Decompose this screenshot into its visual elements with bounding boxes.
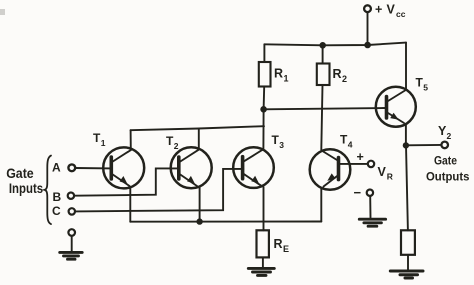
svg-text:T: T <box>416 76 424 90</box>
wire node to T5 base <box>264 108 387 109</box>
ground (RE) <box>248 268 274 275</box>
resistor R2 <box>317 64 330 86</box>
label plus sign <box>357 150 364 164</box>
svg-text:Gate: Gate <box>434 154 457 168</box>
svg-text:3: 3 <box>279 140 284 150</box>
collector bus wire T1,T2 to node <box>131 126 264 130</box>
svg-text:2: 2 <box>447 131 452 141</box>
brace gate inputs <box>45 156 51 225</box>
svg-text:V: V <box>378 165 387 179</box>
label C <box>52 204 61 218</box>
wire input ground terminal down <box>71 236 73 251</box>
label VR <box>378 165 393 182</box>
svg-text:cc: cc <box>396 9 406 19</box>
label +Vcc <box>375 3 406 20</box>
wire T5 emitter down to output node <box>405 124 407 145</box>
svg-text:−: − <box>354 185 362 200</box>
transistor T3 <box>233 147 274 188</box>
wire T3 collector up to node <box>262 109 264 148</box>
terminal +Vcc <box>364 5 371 12</box>
svg-text:4: 4 <box>348 140 353 150</box>
junction dot R2 top <box>320 43 326 49</box>
wire R2 bottom to T4 collector <box>321 85 322 150</box>
wire Vcc terminal down to rail <box>367 12 369 45</box>
svg-text:2: 2 <box>174 141 179 151</box>
svg-text:T: T <box>340 133 348 147</box>
svg-text:B: B <box>53 190 62 204</box>
transistor T2 <box>171 147 212 188</box>
transistor T4 (mirrored) <box>310 149 351 190</box>
junction dot T2 emitter <box>197 219 202 224</box>
svg-text:Outputs: Outputs <box>426 170 470 184</box>
svg-text:V: V <box>387 3 396 17</box>
svg-text:T: T <box>272 133 280 147</box>
scan smudge top-left <box>0 9 5 15</box>
wire VR minus to ground <box>369 196 371 218</box>
wire RE to ground <box>262 257 264 267</box>
transistor T1 <box>103 147 144 188</box>
svg-text:A: A <box>52 160 61 174</box>
label A <box>52 160 61 174</box>
ground (VR) <box>359 219 385 226</box>
label R2 <box>333 67 348 84</box>
wire rail down to R2 <box>322 45 324 63</box>
label T1 <box>93 131 106 148</box>
wire output node to Y2 terminal <box>406 144 442 146</box>
wire C to T3 base <box>75 169 243 212</box>
svg-text:R: R <box>274 237 283 251</box>
wire T1 emitter down <box>129 187 131 221</box>
label T4 <box>340 133 353 150</box>
ground (inputs) <box>60 252 82 259</box>
svg-text:C: C <box>52 204 61 218</box>
svg-text:T: T <box>166 134 174 148</box>
label Gate Inputs <box>6 166 43 196</box>
svg-text:E: E <box>283 244 289 254</box>
wire output node down to load resistor <box>406 145 408 230</box>
label Y2 <box>438 124 452 141</box>
junction dot Vcc <box>365 42 371 48</box>
wire T2 collector <box>198 129 200 150</box>
svg-text:R: R <box>274 67 283 81</box>
wire T3 emitter down through rail to RE <box>263 187 265 230</box>
svg-text:+: + <box>375 3 382 17</box>
resistor RE <box>257 230 269 257</box>
wire T2 emitter down <box>199 187 201 221</box>
label R1 <box>274 67 289 84</box>
label Gate Outputs <box>426 154 470 184</box>
svg-text:R: R <box>387 172 393 182</box>
wire T5 collector from rail <box>405 43 407 90</box>
svg-text:T: T <box>93 131 101 145</box>
terminal input C <box>69 208 75 214</box>
transistor T5 <box>376 87 416 127</box>
junction node A (R1/T3 collector/T5 base) <box>261 107 267 113</box>
label RE <box>274 237 290 254</box>
label minus sign <box>354 185 362 200</box>
wire rail down to R1 <box>263 44 265 62</box>
label T3 <box>272 133 285 150</box>
top supply rail <box>264 43 406 46</box>
label B <box>53 190 62 204</box>
junction dot output node <box>403 143 408 148</box>
wire T4 emitter down to rail end <box>320 189 322 222</box>
label T2 <box>166 134 179 151</box>
svg-text:Gate: Gate <box>6 166 34 181</box>
svg-text:2: 2 <box>342 74 347 84</box>
svg-text:R: R <box>333 67 342 81</box>
wire load resistor to ground <box>407 255 409 270</box>
terminal input A <box>68 164 75 171</box>
terminal Y2 <box>441 142 448 149</box>
svg-text:5: 5 <box>423 83 428 93</box>
svg-text:1: 1 <box>101 138 106 148</box>
resistor R1 <box>259 62 271 87</box>
resistor (output load) <box>401 230 415 255</box>
ground (output) <box>390 271 423 278</box>
wire T1 collector <box>130 130 132 150</box>
svg-text:Inputs: Inputs <box>9 181 43 196</box>
svg-text:+: + <box>357 150 364 164</box>
wire T4 base to VR plus terminal <box>339 163 368 165</box>
terminal VR minus <box>367 190 373 196</box>
terminal input ground <box>68 229 75 236</box>
terminal VR plus <box>368 161 374 167</box>
wire R1 bottom to node <box>263 87 266 110</box>
wire B to T2 base <box>74 168 179 195</box>
label T5 <box>416 76 429 93</box>
terminal input B <box>68 193 74 199</box>
svg-text:1: 1 <box>284 74 289 84</box>
wire A to T1 base <box>76 167 113 169</box>
common emitter rail <box>130 221 321 223</box>
